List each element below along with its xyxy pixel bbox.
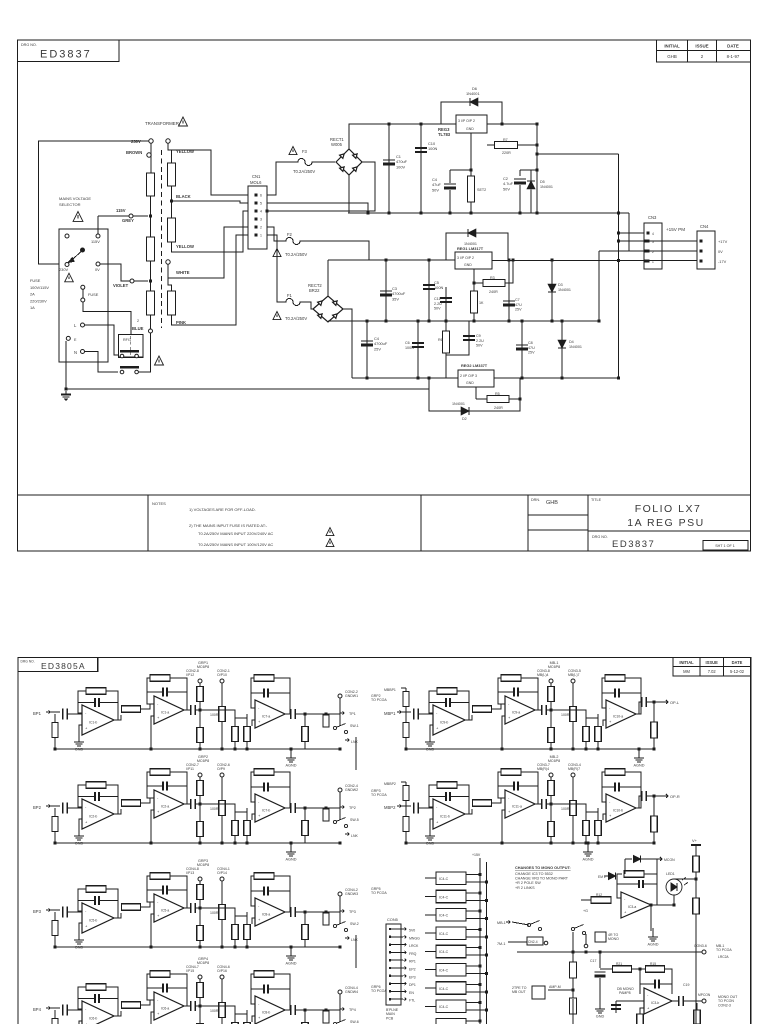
m1 fb1 capwire (78, 702, 94, 704)
svg-text:IC8-b: IC8-b (262, 1010, 270, 1014)
op-amp IC11-a (505, 790, 535, 818)
wire coil3 bottom to cn1 (172, 235, 249, 325)
m3 resistor series (122, 904, 141, 911)
m3 load wire (304, 912, 306, 947)
connector CN4 (697, 231, 715, 269)
m6 wire to opamp1 (419, 804, 433, 808)
regulator REG2 (458, 370, 494, 387)
m5 capacitor fb2 (514, 688, 518, 697)
m3 bias res wire (54, 912, 56, 947)
warn f3 (289, 147, 297, 155)
m3 resistor div dn (197, 926, 204, 941)
m1 resistor bus (219, 707, 226, 722)
svg-text:MAINS VOLTAGE: MAINS VOLTAGE (59, 196, 91, 201)
secondary coil 3 (168, 291, 176, 315)
svg-text:BLUE: BLUE (132, 326, 144, 331)
warn note4 (326, 539, 334, 547)
m6 bal top wire (401, 781, 406, 783)
gate IC4 7 (436, 1000, 466, 1013)
svg-text:SW-1: SW-1 (350, 724, 359, 728)
mono chain j (572, 989, 575, 992)
m2 fb1 capwire2 (100, 796, 118, 798)
m5 output arrow (663, 700, 668, 704)
rail pos lower2 (492, 260, 697, 262)
sel 0V wire (100, 264, 130, 281)
m3 rail j306 (339, 946, 342, 949)
m5 input wire (401, 711, 411, 713)
svg-text:GND: GND (464, 263, 472, 267)
m6 term1 (549, 773, 553, 777)
m3 agnd wire (290, 947, 292, 952)
m1 out j (304, 713, 307, 716)
m6 agnd (583, 848, 593, 856)
m3 coupling cap mid (191, 903, 196, 913)
j r5 out (519, 398, 522, 401)
m2 resistor bus (219, 801, 226, 816)
cn4 pin2 (700, 250, 703, 253)
warn selector (73, 212, 83, 222)
m5 capacitor fb3 (615, 689, 619, 698)
d2 loop (429, 378, 520, 411)
c2 branch wire (520, 169, 537, 171)
gate out wire B 2 (466, 918, 487, 920)
notes right divider (420, 495, 422, 551)
m2 term2 wire (221, 777, 223, 843)
con5 pin wire 3 (391, 944, 403, 946)
c1 wire (388, 124, 390, 213)
node wire y170 (450, 169, 471, 171)
op-amp IC1-b (82, 705, 114, 735)
opamp out to led (651, 904, 674, 906)
m1 resistor shunt1 (232, 727, 239, 742)
svg-text:LRC2A: LRC2A (718, 955, 729, 959)
svg-text:8-1-97: 8-1-97 (727, 54, 740, 59)
m3 agnd j (290, 946, 293, 949)
m4 t1 j (199, 1005, 202, 1008)
m5 fb3 wire2 (625, 678, 641, 714)
svg-text:R15: R15 (650, 962, 656, 966)
m1 term2 wire (221, 683, 223, 749)
dmcon wire2 (641, 859, 657, 874)
svg-text:INITIAL: INITIAL (679, 660, 694, 665)
rail 0V to CN (628, 213, 630, 251)
junction vout top (536, 123, 539, 126)
switch SW-2 (333, 922, 347, 932)
m1 wire to opamp1 (68, 710, 82, 714)
m6 gnd wire (430, 819, 433, 832)
m5 agnd wire (638, 749, 640, 754)
m6 rail j166 (550, 842, 553, 845)
svg-text:GREY: GREY (122, 218, 134, 223)
m2 rail j188 (221, 842, 224, 845)
m6 resistor div up (548, 781, 555, 796)
resistor R5 (487, 396, 509, 403)
svg-text:MNGG: MNGG (409, 936, 420, 940)
m3 resistor bus (219, 905, 226, 920)
gate out wire A 8 (466, 1020, 480, 1022)
m3 resistor div up (197, 885, 204, 900)
m2 resistor series (122, 800, 141, 807)
j c7 a (508, 259, 511, 262)
m2 resistor shunt1 (232, 821, 239, 836)
gate busB j 0 (485, 881, 488, 884)
svg-text:PAMP8: PAMP8 (619, 991, 631, 995)
svg-text:IC4-C: IC4-C (439, 969, 449, 973)
svg-text:VIOLET: VIOLET (113, 283, 129, 288)
gate busB j 2 (485, 917, 488, 920)
svg-text:EM 2: EM 2 (598, 875, 606, 879)
m6 opamp2 plus (502, 810, 505, 843)
gate in wire 7 (425, 1005, 436, 1007)
2tpe link box (532, 986, 545, 999)
svg-text:IC7-b: IC7-b (262, 808, 270, 812)
j c6 a (417, 320, 420, 323)
svg-text:SW-2: SW-2 (350, 922, 359, 926)
vert feed bus (618, 154, 620, 378)
wire mains top (39, 141, 149, 264)
op-amp IC11-b (433, 799, 465, 829)
m6 rail j117 (501, 842, 504, 845)
wire white path to f2 (267, 227, 282, 241)
m6 resistor series (473, 800, 492, 807)
wire +17V (619, 240, 698, 242)
m5 stage3 out (636, 702, 641, 714)
terminal N (81, 350, 85, 354)
m3 fb2 wire (147, 876, 154, 902)
m5 shunt2 wire (597, 718, 599, 749)
svg-text:AMP-M: AMP-M (549, 985, 561, 989)
svg-text:ED3837: ED3837 (40, 49, 92, 61)
m6 fb3 capwire (602, 786, 614, 788)
svg-text:5: 5 (260, 202, 262, 206)
earth ground symbol (61, 391, 71, 399)
m4 capacitor fb2 (163, 984, 167, 993)
m3 fb3 wire2 (274, 876, 290, 912)
junction vout rail (536, 212, 539, 215)
m4 capacitor fb3 (264, 985, 268, 994)
m3 term1 wire (199, 881, 201, 947)
svg-text:TL783: TL783 (438, 132, 451, 137)
m5 term2 wire (572, 683, 574, 749)
wire +15V PM (537, 153, 619, 155)
m1 capacitor fb2 (163, 688, 167, 697)
svg-text:MPCON: MPCON (698, 993, 711, 997)
svg-text:240R: 240R (494, 406, 503, 410)
m3 t1 j (199, 907, 202, 910)
m5 wire to opamp1 (419, 710, 433, 714)
j c4b a (366, 320, 369, 323)
diode D3 (548, 284, 556, 292)
m6 bias res wire (405, 808, 407, 843)
m2 opamp2 plus (151, 810, 154, 843)
svg-text:AGND: AGND (634, 764, 645, 768)
m1 input wire (50, 711, 60, 713)
svg-text:FOLIO LX7: FOLIO LX7 (635, 503, 702, 515)
j bus 241 (617, 240, 620, 243)
junction c10 top (420, 123, 423, 126)
secondary coil 1 (168, 163, 176, 186)
ic3a gnd wire (650, 905, 652, 931)
m5 term1 (549, 679, 553, 683)
mono plus wire (640, 1008, 644, 1015)
svg-text:IC9-a: IC9-a (512, 710, 520, 714)
wire rect1 return (267, 162, 375, 211)
con5 pin wire 7 (391, 975, 403, 977)
svg-text:CON3-7MB(R)4: CON3-7MB(R)4 (537, 763, 550, 771)
svg-text:DRG NO.: DRG NO. (21, 660, 35, 664)
svg-text:INITIAL: INITIAL (664, 44, 680, 49)
m6 stage3 out (636, 796, 641, 808)
m5 fb2 wire2 (521, 678, 538, 710)
svg-text:R12: R12 (596, 893, 602, 897)
op-amp IC5-b (82, 903, 114, 933)
mix wire (600, 968, 613, 970)
m6 rail j269 (653, 842, 656, 845)
m5 fb1 capwire (429, 702, 445, 704)
m1 opamp2 plus (151, 716, 154, 749)
d6 loop (441, 102, 502, 124)
op-amp IC10-a (606, 700, 636, 728)
svg-text:TITLE: TITLE (591, 498, 602, 502)
m5 wire mid (547, 709, 555, 711)
svg-text:DATE: DATE (732, 660, 743, 665)
svg-text:CON3-8MB(L)4: CON3-8MB(L)4 (537, 669, 550, 677)
m1 fb3 capwire2 (269, 692, 290, 694)
con5 pin 1 (389, 928, 391, 930)
resistor R13 (624, 871, 644, 878)
svg-text:TP4: TP4 (349, 1008, 356, 1012)
j led out (673, 904, 676, 907)
mono chain wire2 (572, 999, 574, 1024)
resistor R15 (646, 966, 665, 973)
m1 fb2 capwire2 (168, 691, 187, 693)
m6 output arrow (663, 794, 668, 798)
m3 ladder (339, 896, 341, 924)
resistor R12 (591, 897, 611, 904)
cn3 pin1 (647, 260, 650, 263)
m3 term2 wire (221, 881, 223, 947)
m5 load wire (653, 702, 655, 749)
svg-text:DRN.: DRN. (531, 498, 540, 502)
m3 shunt1 wire (234, 916, 236, 947)
m2 input cap (63, 803, 68, 814)
v+ t-bar (691, 844, 701, 846)
wire f1 to rect2 (304, 302, 314, 309)
svg-text:T0.2A/250V MAINS INPUT 220V/24: T0.2A/250V MAINS INPUT 220V/240V AC (198, 531, 273, 536)
m3 shunt2 wire (246, 916, 248, 947)
junction c10 bot (420, 212, 423, 215)
m1 ground (74, 738, 84, 746)
wire bottom long (348, 378, 429, 389)
m2 wire mid (196, 803, 204, 805)
svg-text:IC9-b: IC9-b (440, 721, 448, 725)
svg-text:GND: GND (466, 127, 474, 131)
m3 fb3 capwire2 (269, 890, 290, 892)
m2 fb2 wire (147, 772, 154, 798)
m5 resistor shunt1 (583, 727, 590, 742)
mix down wire (639, 969, 641, 994)
mix r15 out (664, 969, 672, 994)
m5 resistor div up (548, 687, 555, 702)
m4 coupling cap out (291, 1005, 296, 1015)
em2 wire (604, 875, 608, 877)
svg-text:AGND: AGND (583, 858, 594, 862)
svg-text:GND: GND (466, 381, 474, 385)
svg-text:2TPE TOMB OUT: 2TPE TOMB OUT (512, 986, 527, 994)
m1 fb1 capwire2 (100, 702, 118, 704)
m5 resistor fb2 (501, 675, 521, 682)
switch mono sel (571, 925, 585, 935)
svg-text:DRG NO.: DRG NO. (592, 535, 608, 539)
m5 stage1 out (465, 715, 472, 720)
svg-text:+17V: +17V (718, 239, 728, 244)
gate IC4 6 (436, 982, 466, 995)
gate busB j 3 (485, 935, 488, 938)
m5 fb1 wire (429, 691, 437, 713)
r7 to node (518, 144, 538, 146)
m5 fb3 capwire (602, 692, 614, 694)
m2 resistor fb3 (254, 769, 274, 776)
m2 swres wire (325, 808, 327, 818)
svg-text:TO PCOA: TO PCOA (371, 793, 387, 797)
m1 wire to opamp2 (141, 704, 154, 709)
svg-text:TP3: TP3 (349, 910, 356, 914)
m1 swres j (325, 713, 328, 716)
set2 to rail (470, 202, 472, 213)
svg-text:MOL6: MOL6 (250, 180, 262, 185)
wire cn3 pin4 feed (619, 232, 645, 234)
warn f1 (273, 312, 281, 320)
m6 term1 wire (550, 777, 552, 843)
m2 wire to opamp2 (141, 798, 154, 803)
m2 rail j201 (234, 842, 237, 845)
reg1 adj wire (473, 269, 475, 283)
wire tap 0V (150, 261, 152, 291)
m5 fb2 wire (498, 678, 505, 704)
m2 fb3 wire2 (274, 772, 290, 808)
switch SW-1 (333, 724, 347, 734)
svg-text:IC4-C: IC4-C (439, 950, 449, 954)
svg-text:ED3805A: ED3805A (41, 661, 86, 671)
svg-text:IC4-C: IC4-C (439, 877, 449, 881)
svg-text:W005: W005 (331, 142, 343, 147)
svg-text:MBBP1: MBBP1 (384, 688, 396, 692)
r7 branch (487, 144, 495, 146)
reg2 adj wire (475, 387, 477, 399)
c4 wire2 (449, 190, 451, 213)
svg-text:CON3-5MB(L)7: CON3-5MB(L)7 (568, 669, 581, 677)
m3 fb1 capwire (78, 900, 94, 902)
gate IC4 4 (436, 945, 466, 958)
diode D-MCON (634, 856, 641, 863)
m4 fb3 capwire (251, 988, 263, 990)
gate busB j 6 (485, 990, 488, 993)
wire primary bottom (150, 315, 152, 329)
j r4 rail (473, 320, 476, 323)
svg-text:D6: D6 (472, 86, 477, 91)
j bus 378 (617, 377, 620, 380)
m6 resistor fb2 (501, 769, 521, 776)
diode D5 (527, 181, 535, 189)
m5 wire to opamp2 (492, 704, 505, 709)
c17 wire2 (599, 978, 601, 1005)
gate out wire B 6 (466, 991, 487, 993)
m5 wire to opamp3 (555, 710, 586, 718)
j bus 233 (617, 232, 620, 235)
m2 fb2 capwire (147, 785, 162, 787)
m3 input cap (63, 907, 68, 918)
svg-text:TRANSFORMER: TRANSFORMER (145, 121, 179, 126)
m4 load wire (304, 1010, 306, 1024)
m1 agnd j (290, 748, 293, 751)
svg-text:FTL: FTL (409, 999, 415, 1003)
m1 shunt2 wire (246, 718, 248, 749)
c6 wire (417, 321, 419, 378)
m2 load wire (304, 808, 306, 843)
gate out wire A 3 (466, 928, 480, 930)
m2 resistor div dn (197, 822, 204, 837)
warn sel fuse (65, 273, 74, 282)
svg-text:CON2-4GNDW2: CON2-4GNDW2 (345, 784, 358, 792)
svg-text:R7: R7 (503, 138, 508, 142)
m2 fb1 wire2 (106, 785, 118, 814)
capacitor C17a (639, 880, 643, 888)
gate in wire 3 (425, 932, 436, 934)
m6 coupling cap out (642, 791, 647, 801)
cn3 pin3 (647, 240, 650, 243)
m5 agnd (634, 754, 644, 762)
m1 ladder (339, 698, 341, 726)
svg-text:2: 2 (137, 319, 139, 323)
m2 fb2 wire2 (170, 772, 187, 804)
m2 ladder (339, 792, 341, 820)
gate in wire 0 (425, 877, 436, 879)
m3 stage3 out (285, 911, 290, 913)
svg-text:BROWN: BROWN (126, 150, 142, 155)
junction cn1 return (266, 210, 269, 213)
m4 gnd wire (79, 1021, 82, 1024)
gate busA j 4 (479, 946, 482, 949)
sel 115V up wire (97, 216, 99, 234)
resistor vr1 (693, 856, 700, 872)
m5 resistor bus (570, 707, 577, 722)
svg-text:IC1-b: IC1-b (89, 721, 97, 725)
svg-text:RP1: RP1 (409, 960, 416, 964)
m1 wire mid (196, 709, 204, 711)
bridge rectifier RECT1 (336, 149, 362, 175)
m1 agnd wire (290, 749, 292, 754)
m3 wire mid (196, 907, 204, 909)
m1 resistor series (122, 706, 141, 713)
m1 resistor load (302, 727, 309, 742)
r12 in wire (581, 899, 591, 901)
c7 wire (508, 260, 510, 321)
m6 input wire (401, 805, 411, 807)
resistor R21 (613, 966, 632, 973)
gate out wire A 7 (466, 1002, 480, 1004)
svg-text:MBP2: MBP2 (384, 805, 396, 810)
primary coil 3 (147, 291, 155, 315)
rail neg lower (352, 377, 619, 379)
wire reg3 out (487, 123, 537, 125)
m1 resistor bias (52, 723, 58, 738)
m1 out wire (296, 713, 340, 715)
cn1 pin 3 (255, 218, 258, 221)
m2 stage2 out (184, 803, 190, 805)
m4 wire to opamp2 (141, 1000, 154, 1005)
gate busA j 0 (479, 873, 482, 876)
svg-text:IC5-b: IC5-b (89, 919, 97, 923)
